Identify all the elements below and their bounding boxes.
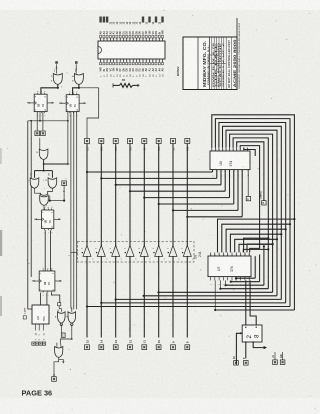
page number bbox=[22, 389, 53, 398]
U7 top pin staircase wires bbox=[218, 218, 296, 252]
gates U2d U2e bbox=[55, 303, 76, 326]
IC U6 74LS374 bbox=[210, 148, 250, 177]
U8 74LS244 buffer row (dashed) bbox=[68, 242, 202, 263]
wires FF U5 to FF U6a bbox=[45, 230, 50, 271]
bottom pad bbox=[52, 374, 57, 382]
gates U4a U4b bbox=[27, 171, 56, 189]
gate-output wires bbox=[41, 85, 99, 139]
title block MIDWAY MFG CO bbox=[183, 18, 241, 90]
bus wires (8 vertical lines) bbox=[87, 144, 187, 338]
wires to 556 bbox=[40, 293, 59, 305]
inner nest corner wires bbox=[237, 142, 264, 253]
nest wires U6 top over right edge bbox=[212, 115, 295, 310]
U7 to U1 wires bbox=[246, 280, 256, 325]
IC U1 9602 one-shot bbox=[236, 325, 267, 365]
connector pad near U4 bbox=[62, 181, 67, 201]
pad below gate bbox=[60, 325, 72, 345]
gate U2f bbox=[54, 343, 65, 377]
input stubs above gates bbox=[55, 61, 78, 73]
bottom right connector pads bbox=[233, 352, 285, 365]
xor gate U4c bbox=[35, 188, 53, 210]
IC U9 2650 CPU (40-pin DIP) bbox=[98, 17, 165, 77]
flip-flop U6a bbox=[32, 268, 63, 296]
gate U2c and squares bbox=[35, 131, 69, 172]
U7 upper-right corner wires bbox=[244, 237, 274, 252]
gates U2a U2b bbox=[51, 68, 83, 84]
notes legend: 44-pin connector symbol bbox=[176, 61, 197, 86]
bottom wrap wires to bus bbox=[86, 277, 295, 311]
IC U7 74LS374 bbox=[208, 252, 251, 285]
44-pin connector pads row (bus inputs) bbox=[85, 139, 190, 151]
2MHZ clock label bbox=[246, 170, 266, 206]
resistor R1 bbox=[113, 78, 140, 87]
pads under 556 bbox=[32, 342, 46, 345]
bottom connector pads row bbox=[85, 340, 190, 350]
IC 556 timer bbox=[23, 305, 49, 340]
bus-to-U6 staircase wires bbox=[86, 170, 242, 218]
inner wrap verticals bbox=[255, 245, 265, 285]
wire junction bbox=[49, 195, 65, 201]
flip-flop U5 bbox=[34, 207, 61, 233]
wires below flip-flops bbox=[28, 112, 77, 312]
flip-flops U3 7474 bbox=[27, 91, 87, 116]
